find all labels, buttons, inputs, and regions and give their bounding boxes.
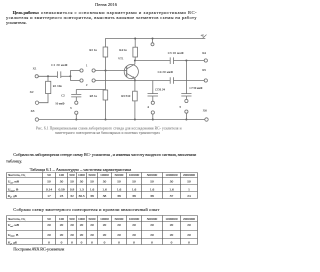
svg-text:5000: 5000 bbox=[89, 173, 96, 177]
svg-text:20: 20 bbox=[117, 233, 121, 237]
terminal X4 bbox=[204, 59, 207, 62]
svg-text:Х2: Х2 bbox=[30, 90, 34, 94]
svg-text:1.6: 1.6 bbox=[132, 188, 137, 192]
svg-text:50: 50 bbox=[117, 180, 121, 184]
capacitor C1 bbox=[57, 71, 60, 78]
svg-text:100000: 100000 bbox=[129, 217, 140, 221]
svg-text:20: 20 bbox=[103, 223, 107, 227]
svg-text:50: 50 bbox=[187, 180, 191, 184]
node junction collector bbox=[134, 60, 136, 62]
svg-text:Uвх, мВ: Uвх, мВ bbox=[8, 180, 20, 185]
svg-text:100000: 100000 bbox=[129, 173, 140, 177]
svg-text:50000: 50000 bbox=[115, 217, 124, 221]
resistor R5 bbox=[133, 91, 138, 101]
svg-text:50: 50 bbox=[47, 180, 51, 184]
svg-text:Ку, дБ: Ку, дБ bbox=[7, 194, 17, 199]
node junction jumper4-rail bbox=[152, 119, 154, 121]
svg-text:усилителя и эмиттерного повтор: усилителя и эмиттерного повторителя, выя… bbox=[6, 15, 197, 21]
svg-text:38: 38 bbox=[132, 194, 136, 198]
svg-text:50: 50 bbox=[90, 180, 94, 184]
svg-text:ознакомиться с основными парам: ознакомиться с основными параметрами и х… bbox=[41, 10, 197, 15]
node junction emitter bbox=[134, 79, 136, 81]
wire divider vertical bbox=[105, 57, 107, 90]
table 1 text bbox=[7, 173, 195, 199]
node junction C7 tap bbox=[185, 60, 187, 62]
svg-text:20: 20 bbox=[80, 223, 84, 227]
wire R1 top bbox=[47, 76, 49, 81]
svg-text:0: 0 bbox=[48, 241, 50, 245]
svg-text:0.14: 0.14 bbox=[46, 188, 52, 192]
svg-text:50: 50 bbox=[70, 180, 74, 184]
svg-text:1: 1 bbox=[86, 64, 88, 68]
wire R5 to rail bbox=[134, 101, 136, 120]
svg-text:С1 20 мкФ: С1 20 мкФ bbox=[51, 63, 68, 67]
wire C7 tap from collector bbox=[185, 61, 187, 94]
svg-text:32: 32 bbox=[70, 194, 74, 198]
svg-text:38: 38 bbox=[117, 194, 121, 198]
svg-text:R2 1к: R2 1к bbox=[89, 48, 97, 52]
svg-text:VT1: VT1 bbox=[118, 57, 124, 61]
svg-text:2: 2 bbox=[86, 83, 88, 87]
terminal jumper5 top bbox=[185, 99, 188, 102]
table 2 grid bbox=[7, 216, 198, 245]
svg-text:20: 20 bbox=[132, 233, 136, 237]
node junction jumper3-rail bbox=[75, 119, 77, 121]
node junction rail-supply tap bbox=[152, 38, 154, 40]
transistor VT1 bbox=[124, 61, 138, 81]
wire C1 to split bbox=[61, 75, 71, 77]
table 1 grid bbox=[7, 173, 198, 199]
svg-text:0: 0 bbox=[104, 241, 106, 245]
svg-text:20: 20 bbox=[103, 233, 107, 237]
svg-text:17: 17 bbox=[47, 194, 51, 198]
svg-text:20: 20 bbox=[170, 233, 174, 237]
svg-text:5000: 5000 bbox=[89, 217, 96, 221]
svg-text:С3 20 мкФ: С3 20 мкФ bbox=[168, 51, 184, 55]
resistor R3 bbox=[103, 90, 108, 100]
svg-text:2000000: 2000000 bbox=[183, 173, 196, 177]
svg-text:0.59: 0.59 bbox=[58, 188, 64, 192]
wire C7 to jumper5 bbox=[185, 96, 187, 99]
svg-text:20: 20 bbox=[132, 223, 136, 227]
svg-text:500000: 500000 bbox=[147, 173, 158, 177]
svg-text:1000: 1000 bbox=[78, 173, 85, 177]
capacitor C3 bbox=[170, 57, 173, 64]
figure caption bbox=[36, 127, 182, 135]
table 2 text bbox=[7, 217, 195, 246]
svg-text:0.8: 0.8 bbox=[70, 188, 75, 192]
terminal jumper5 bottom bbox=[185, 110, 188, 113]
svg-text:1: 1 bbox=[188, 188, 190, 192]
wire C2 tap bbox=[76, 90, 105, 95]
node junction X1-R1 bbox=[47, 75, 49, 77]
resistor R4 bbox=[133, 47, 138, 57]
wire R3 to ground rail bbox=[105, 100, 107, 120]
svg-text:Рис. 6.1 Принципиальная схема: Рис. 6.1 Принципиальная схема лабораторн… bbox=[36, 127, 182, 131]
svg-text:Х4: Х4 bbox=[202, 51, 206, 55]
svg-text:1000000: 1000000 bbox=[165, 173, 178, 177]
svg-text:Собрали на лабораторном стенде: Собрали на лабораторном стенде схему RC-… bbox=[13, 152, 197, 158]
svg-text:2000000: 2000000 bbox=[183, 217, 196, 221]
svg-text:23: 23 bbox=[60, 194, 64, 198]
terminal jumper3 top bbox=[75, 101, 78, 104]
svg-text:R3 1к: R3 1к bbox=[90, 94, 98, 98]
wire split to jumper1 bbox=[70, 70, 80, 72]
svg-text:Ку, дБ: Ку, дБ bbox=[7, 241, 17, 246]
wire jumper5 to rail bbox=[185, 113, 187, 119]
terminal X2 bbox=[35, 101, 38, 104]
terminal jumper3 bottom bbox=[75, 111, 78, 114]
wire ground rail bbox=[39, 119, 205, 121]
terminal jumper2 left bbox=[80, 79, 83, 82]
wire supply tap stub bbox=[152, 39, 154, 43]
wire base net bbox=[95, 70, 127, 72]
terminal jumper1 right bbox=[92, 69, 95, 72]
terminal X3 bbox=[35, 118, 38, 121]
terminal X6 bbox=[205, 118, 208, 121]
svg-text:0: 0 bbox=[133, 241, 135, 245]
svg-text:20: 20 bbox=[150, 233, 154, 237]
svg-text:С2: С2 bbox=[61, 94, 65, 98]
wire emitter to R5 bbox=[134, 80, 136, 91]
svg-text:Х5: Х5 bbox=[202, 68, 206, 72]
svg-text:20: 20 bbox=[117, 223, 121, 227]
node junction rail-R4 bbox=[134, 38, 136, 40]
terminal jumper2 right bbox=[92, 79, 95, 82]
svg-text:20: 20 bbox=[90, 233, 94, 237]
svg-text:1000: 1000 bbox=[78, 217, 85, 221]
svg-text:50: 50 bbox=[60, 180, 64, 184]
wire C3 to X4 bbox=[174, 60, 205, 62]
svg-text:1.6: 1.6 bbox=[90, 188, 95, 192]
terminal jumper4 bottom bbox=[151, 111, 154, 114]
svg-text:1.3: 1.3 bbox=[79, 188, 84, 192]
wire C4 to X5 bbox=[174, 80, 205, 82]
svg-text:20: 20 bbox=[47, 223, 51, 227]
wire emitter output bbox=[95, 80, 170, 82]
svg-text:+Е: +Е bbox=[201, 34, 205, 37]
wire X1 to C1 bbox=[38, 75, 57, 77]
svg-text:38: 38 bbox=[150, 194, 154, 198]
svg-text:20: 20 bbox=[47, 233, 51, 237]
wire collector output bbox=[135, 60, 170, 62]
node junction base-divider bbox=[105, 70, 107, 72]
svg-text:10000: 10000 bbox=[100, 173, 109, 177]
svg-text:20: 20 bbox=[170, 223, 174, 227]
svg-text:36.5: 36.5 bbox=[78, 194, 84, 198]
svg-text:10 мкФ: 10 мкФ bbox=[55, 101, 65, 105]
svg-text:0: 0 bbox=[71, 241, 73, 245]
svg-text:0: 0 bbox=[118, 241, 120, 245]
terminal X5 bbox=[204, 79, 207, 82]
node junction jumper5-rail bbox=[185, 119, 187, 121]
document text bbox=[6, 2, 197, 25]
wire R4 to collector bbox=[134, 57, 136, 61]
svg-text:Х6: Х6 bbox=[203, 109, 207, 113]
svg-text:СГ20 24: СГ20 24 bbox=[155, 88, 165, 92]
node junction R3-rail bbox=[105, 119, 107, 121]
svg-text:R5 510: R5 510 bbox=[121, 94, 130, 98]
svg-text:таблицу.: таблицу. bbox=[6, 158, 22, 163]
capacitor C2 bbox=[71, 94, 81, 97]
svg-text:50: 50 bbox=[103, 180, 107, 184]
node +E supply arrow bbox=[203, 35, 207, 39]
svg-text:50: 50 bbox=[47, 173, 51, 177]
svg-text:20: 20 bbox=[70, 223, 74, 227]
svg-text:20: 20 bbox=[60, 223, 64, 227]
capacitor C7 bbox=[181, 94, 191, 96]
svg-text:20: 20 bbox=[187, 223, 191, 227]
svg-text:50: 50 bbox=[150, 180, 154, 184]
svg-text:эмиттерного повторителя на бип: эмиттерного повторителя на биполярных и … bbox=[55, 131, 160, 135]
svg-text:Таблица 6.1 – Амплитудно – час: Таблица 6.1 – Амплитудно – частотная хар… bbox=[30, 167, 132, 172]
svg-text:Построим АЧХ RC-усилителя: Построим АЧХ RC-усилителя bbox=[13, 247, 64, 252]
svg-text:Х3: Х3 bbox=[31, 109, 35, 113]
svg-text:50: 50 bbox=[80, 180, 84, 184]
svg-text:Пенза 2016: Пенза 2016 bbox=[95, 2, 118, 7]
svg-text:Х1: Х1 bbox=[33, 67, 37, 71]
svg-text:50000: 50000 bbox=[115, 173, 124, 177]
svg-text:С4 20 мкФ: С4 20 мкФ bbox=[158, 70, 174, 74]
svg-text:1.6: 1.6 bbox=[117, 188, 122, 192]
capacitor C4 bbox=[170, 77, 173, 84]
svg-text:0: 0 bbox=[188, 241, 190, 245]
svg-text:R1 10к: R1 10к bbox=[53, 84, 62, 88]
svg-text:Uвых, В: Uвых, В bbox=[8, 233, 19, 238]
svg-text:3: 3 bbox=[70, 106, 72, 110]
svg-text:0: 0 bbox=[151, 241, 153, 245]
capacitor C6 bbox=[148, 94, 159, 96]
svg-text:20: 20 bbox=[60, 233, 64, 237]
svg-text:100: 100 bbox=[59, 217, 65, 221]
svg-text:500000: 500000 bbox=[147, 217, 158, 221]
svg-text:0: 0 bbox=[61, 241, 63, 245]
svg-text:С7 50 мкФ: С7 50 мкФ bbox=[190, 87, 204, 90]
terminal jumper1 left bbox=[80, 69, 83, 72]
svg-text:4: 4 bbox=[147, 105, 149, 109]
svg-text:38: 38 bbox=[90, 194, 94, 198]
svg-text:20: 20 bbox=[80, 233, 84, 237]
svg-text:0: 0 bbox=[81, 241, 83, 245]
node junction split bbox=[69, 75, 71, 77]
node junction R5-rail bbox=[134, 119, 136, 121]
wire R1 bottom to X2 bbox=[39, 94, 48, 103]
svg-text:Цель работы:: Цель работы: bbox=[13, 10, 40, 15]
svg-text:500: 500 bbox=[69, 173, 75, 177]
svg-text:10000: 10000 bbox=[100, 217, 109, 221]
wire split vertical bbox=[69, 71, 71, 81]
svg-text:50: 50 bbox=[47, 217, 51, 221]
svg-text:0: 0 bbox=[171, 241, 173, 245]
svg-text:100: 100 bbox=[59, 173, 65, 177]
svg-text:Uвх, мВ: Uвх, мВ bbox=[8, 223, 20, 228]
svg-text:500: 500 bbox=[69, 217, 75, 221]
svg-text:20: 20 bbox=[70, 233, 74, 237]
svg-text:1.6: 1.6 bbox=[150, 188, 155, 192]
wire R4 riser bbox=[134, 39, 136, 48]
wire C6 tap bbox=[152, 81, 154, 94]
wire C2 to jumper3 bbox=[75, 97, 77, 101]
terminal X1 bbox=[35, 75, 38, 78]
svg-text:1.6: 1.6 bbox=[169, 188, 174, 192]
wire C6 to jumper4 bbox=[152, 96, 154, 101]
terminal jumper4 top bbox=[151, 101, 154, 104]
svg-text:Собрали схему эмиттерного повт: Собрали схему эмиттерного повторителя и … bbox=[13, 207, 159, 212]
svg-text:50: 50 bbox=[170, 180, 174, 184]
svg-text:20: 20 bbox=[150, 223, 154, 227]
svg-text:0: 0 bbox=[91, 241, 93, 245]
svg-text:38: 38 bbox=[103, 194, 107, 198]
svg-text:20: 20 bbox=[187, 233, 191, 237]
svg-text:37: 37 bbox=[170, 194, 174, 198]
wire top supply rail bbox=[106, 39, 206, 48]
terminal supply circle bbox=[151, 43, 154, 46]
svg-text:24: 24 bbox=[187, 194, 191, 198]
svg-text:5: 5 bbox=[180, 105, 182, 109]
resistor R2 bbox=[103, 47, 108, 57]
svg-text:1000000: 1000000 bbox=[165, 217, 178, 221]
svg-text:R4 2к: R4 2к bbox=[119, 48, 127, 52]
wire jumper3 to rail bbox=[75, 114, 77, 119]
wire jumper4 to rail bbox=[152, 114, 154, 119]
svg-text:1.6: 1.6 bbox=[102, 188, 107, 192]
svg-text:усилителя.: усилителя. bbox=[6, 20, 27, 25]
wire split to jumper2 bbox=[70, 80, 80, 82]
svg-text:20: 20 bbox=[90, 223, 94, 227]
svg-text:50: 50 bbox=[132, 180, 136, 184]
resistor R1 bbox=[46, 81, 51, 93]
